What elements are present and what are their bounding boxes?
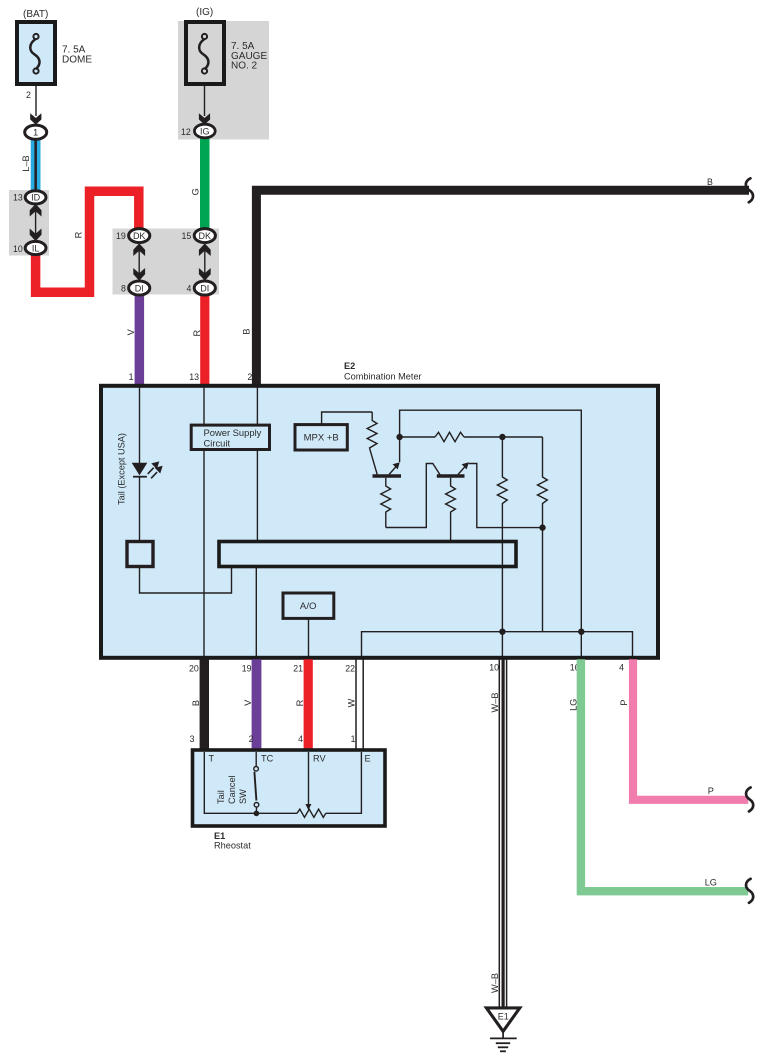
potentiometer wiper RV: [305, 752, 311, 810]
wire MPX+B to resistor R1: [322, 412, 373, 425]
wire power supply circuit to pin 20: [203, 451, 205, 657]
node D (junction dot pin10): [499, 629, 505, 635]
connector IL (10): [13, 241, 46, 254]
wire W-B from pin 10 to ground (white w/ black stripe): [499, 659, 506, 1007]
svg-text:22: 22: [345, 664, 355, 674]
tail cancel switch: [254, 752, 260, 816]
internal bottom wire pins 22-10-16-4: [362, 632, 633, 656]
svg-text:W: W: [347, 698, 357, 707]
LED tail lamp: [132, 461, 163, 478]
wire small box to bus bar: [140, 568, 232, 593]
junction arrows ID-IL: [30, 204, 42, 241]
connector DK (19): [116, 229, 150, 243]
node wire y437 with horizontal resistor R4: [400, 432, 543, 441]
rheostat resistor: [297, 809, 326, 817]
svg-text:LG: LG: [705, 878, 717, 888]
gray background panel for junction ID/IL: [9, 190, 49, 256]
node E (junction dot pin16): [578, 629, 584, 635]
svg-text:4: 4: [619, 663, 624, 673]
svg-text:E2: E2: [344, 361, 355, 371]
svg-text:V: V: [126, 328, 136, 335]
wire fuse DOME to connector 1: [35, 86, 37, 116]
wire R pin21 to rheostat RV: [304, 659, 313, 750]
break symbol B wire: [746, 178, 753, 202]
svg-text:20: 20: [189, 664, 199, 674]
connector DK (15): [182, 229, 216, 243]
svg-text:B: B: [707, 177, 713, 187]
node A (junction dot): [396, 434, 402, 440]
junction arrows DK-DI right: [199, 243, 211, 280]
fuse GAUGE NO.2 (IG): [186, 7, 267, 84]
svg-text:E: E: [365, 754, 371, 764]
svg-text:R: R: [73, 231, 83, 238]
svg-text:13: 13: [189, 372, 199, 382]
wire L-B (blue with black stripe) from connector 1 to ID: [31, 138, 41, 193]
wire Q1 emitter to node: [399, 438, 401, 462]
wire pin1 to LED: [139, 387, 141, 463]
arrow down into connector IG: [199, 113, 210, 124]
svg-text:R: R: [192, 330, 202, 337]
break symbol P wire: [746, 787, 753, 811]
svg-text:4: 4: [298, 734, 303, 744]
svg-text:Circuit: Circuit: [204, 437, 231, 448]
svg-text:21: 21: [293, 664, 303, 674]
wire B pin20 to rheostat T: [200, 659, 209, 750]
resistor R6 (right): [538, 437, 548, 632]
wire Q2 emitter to lower node: [469, 464, 543, 528]
combination meter box E2: [101, 361, 658, 658]
svg-text:1: 1: [129, 372, 134, 382]
svg-text:Combination Meter: Combination Meter: [344, 372, 422, 382]
svg-text:Rheostat: Rheostat: [214, 841, 251, 851]
svg-text:(IG): (IG): [196, 7, 213, 18]
svg-text:E1: E1: [214, 831, 225, 841]
wire R (red) from DI 4 to meter pin 13: [200, 294, 209, 386]
svg-text:10: 10: [13, 244, 23, 254]
svg-text:TC: TC: [261, 754, 274, 764]
svg-text:8: 8: [121, 284, 126, 294]
svg-text:(BAT): (BAT): [23, 9, 48, 20]
svg-text:E1: E1: [498, 1012, 509, 1022]
svg-text:P: P: [708, 786, 714, 796]
wire fuse IG to connector IG: [204, 86, 206, 116]
wire top internal from node A to pin 16 column: [400, 410, 582, 632]
wire R (thick red) from IL to DK 19: [36, 191, 139, 292]
svg-text:19: 19: [116, 231, 126, 241]
ground E1: [486, 1008, 519, 1051]
wire pin13 to power supply circuit: [203, 387, 205, 425]
wire A/O to pin 21: [308, 618, 310, 656]
svg-text:ID: ID: [31, 193, 41, 203]
node B (junction dot): [499, 434, 505, 440]
MPX +B box: [295, 425, 347, 450]
resistor R2 (under Q1): [381, 478, 391, 528]
wire W pin22 to rheostat E (white, outline): [356, 659, 363, 750]
svg-text:B: B: [242, 329, 252, 335]
resistor R1 (collector feed): [367, 412, 377, 475]
connector oval IG (12): [181, 124, 215, 138]
label E1 Rheostat: [214, 831, 251, 851]
wire G (green) from IG to DK 15: [200, 136, 210, 229]
break symbol LG wire: [746, 879, 753, 903]
node C (junction dot R6 bottom): [539, 524, 545, 530]
svg-text:3: 3: [190, 734, 195, 744]
svg-text:10: 10: [489, 663, 499, 673]
power supply circuit box: [191, 425, 269, 449]
svg-text:A/O: A/O: [300, 601, 317, 612]
wire V pin19 to rheostat TC: [252, 659, 262, 750]
svg-text:L–B: L–B: [21, 155, 31, 171]
resistor R5 (pin 10 column): [497, 437, 507, 632]
transistor Q2: [437, 462, 469, 476]
svg-text:1: 1: [33, 127, 38, 137]
svg-text:Tail: Tail: [216, 790, 226, 804]
transistor Q1: [373, 462, 402, 476]
wire pin2 to bus bar: [256, 387, 258, 541]
svg-text:2: 2: [247, 372, 252, 382]
small component box: [127, 542, 153, 567]
svg-text:1: 1: [351, 734, 356, 744]
rheostat box E1: [193, 750, 386, 826]
svg-text:Cancel: Cancel: [227, 775, 237, 804]
svg-text:IL: IL: [32, 243, 40, 253]
svg-text:SW: SW: [238, 789, 248, 804]
resistor R3 (under Q2): [446, 478, 456, 541]
svg-text:4: 4: [187, 284, 192, 294]
svg-text:T: T: [209, 754, 215, 764]
wire V (purple) from DI 8 to meter pin 1: [135, 294, 145, 386]
gray background panel for IG fuse block: [178, 21, 269, 140]
connector DI (8): [121, 281, 150, 295]
A/O box: [283, 593, 334, 618]
wire LED to resistor box: [139, 476, 141, 541]
svg-text:DOME: DOME: [62, 55, 92, 66]
wire pin16 riser: [580, 632, 582, 656]
svg-text:DI: DI: [200, 283, 209, 293]
fuse DOME (BAT): [17, 9, 92, 84]
wire resistor to E: [326, 752, 362, 813]
wire LG from pin 16 with break: [581, 659, 748, 891]
svg-text:G: G: [190, 188, 200, 195]
svg-text:V: V: [243, 699, 253, 706]
svg-text:12: 12: [181, 127, 191, 137]
svg-text:IG: IG: [200, 126, 210, 136]
svg-text:W–B: W–B: [490, 693, 500, 713]
connector DI (4): [187, 281, 216, 295]
svg-text:B: B: [191, 700, 201, 706]
connector oval 1: [25, 125, 47, 139]
svg-text:13: 13: [13, 193, 23, 203]
junction arrows DK-DI left: [133, 243, 145, 280]
wire R2 to Q2 collector: [386, 464, 440, 528]
svg-text:NO. 2: NO. 2: [231, 60, 258, 71]
wire P from pin 4 with break: [633, 659, 748, 800]
wire bus bar to pin 19: [255, 567, 257, 656]
wire T to bottom rail: [204, 752, 297, 813]
wire pin10 riser: [501, 632, 503, 656]
bus bar box: [219, 542, 516, 567]
label Tail Cancel SW: [216, 775, 248, 804]
arrow down into connector 1: [30, 113, 41, 124]
svg-text:R: R: [295, 699, 305, 706]
svg-text:Tail (Except USA): Tail (Except USA): [117, 433, 127, 505]
connector ID (13): [13, 191, 46, 204]
svg-text:P: P: [619, 699, 629, 705]
svg-text:2: 2: [249, 734, 254, 744]
svg-text:W–B: W–B: [490, 973, 500, 993]
wire B (thick black) top right with break: [256, 190, 749, 386]
svg-text:DK: DK: [133, 231, 146, 241]
svg-text:DK: DK: [199, 231, 212, 241]
svg-text:DI: DI: [135, 283, 144, 293]
svg-text:LG: LG: [569, 699, 579, 711]
gray background panel for junction DK/DI: [113, 229, 220, 295]
svg-text:MPX +B: MPX +B: [304, 432, 339, 443]
svg-text:2: 2: [26, 90, 31, 100]
svg-text:RV: RV: [313, 754, 326, 764]
svg-text:19: 19: [242, 664, 252, 674]
svg-text:15: 15: [182, 231, 192, 241]
